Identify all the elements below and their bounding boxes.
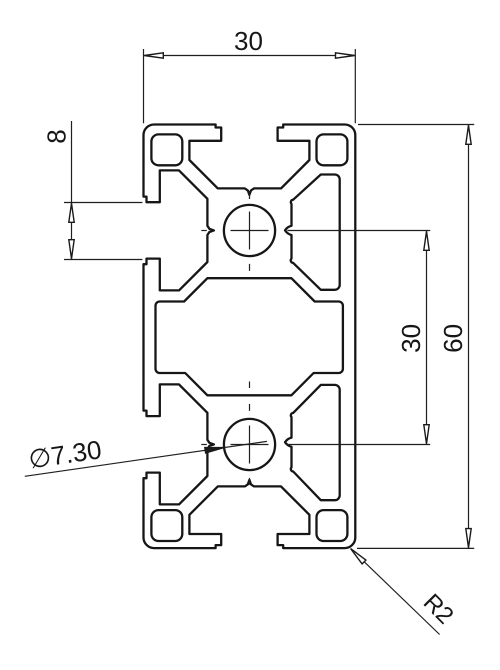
leader line R2 — [351, 549, 439, 634]
corner channel bottom-right — [317, 510, 348, 541]
core hole top — [224, 205, 275, 256]
dimension 30 right dimension line — [426, 231, 428, 445]
corner channel top-left — [151, 134, 182, 165]
dimension 30 top arrows — [144, 53, 163, 58]
dimension 30 top dimension line — [144, 55, 356, 57]
centreline bottom circle — [231, 426, 269, 464]
dimension 60 right extension lines — [357, 125, 474, 549]
core hole bottom — [224, 419, 275, 470]
dimension 8 left arrows — [69, 203, 74, 222]
corner channel bottom-left — [151, 510, 182, 541]
dimension 30 right extension lines (circle centrelines) — [287, 231, 430, 445]
dimension 30 top extension lines — [144, 49, 356, 123]
svg-text:30: 30 — [396, 324, 426, 353]
dimension 60 right dimension line — [468, 125, 470, 549]
central cavity — [156, 278, 343, 395]
corner channel top-right — [317, 134, 348, 165]
dimension 8 left extension lines — [64, 203, 142, 260]
centreline top circle — [231, 212, 269, 250]
profile outer outline with T-slots — [144, 125, 356, 549]
svg-text:60: 60 — [438, 324, 468, 353]
closed cavity right face upper — [285, 175, 340, 290]
closed cavity right face lower — [285, 385, 340, 500]
leader arrow R2 — [351, 549, 366, 564]
svg-text:30: 30 — [234, 26, 263, 56]
svg-text:8: 8 — [42, 129, 72, 143]
dimension 30 right arrows — [424, 231, 429, 250]
dimension 60 right arrows — [466, 125, 471, 144]
leader line diameter 7.30 — [25, 441, 267, 476]
dimension 8 left dimension line — [71, 121, 73, 260]
leader arrow diameter 7.30 — [205, 448, 224, 453]
